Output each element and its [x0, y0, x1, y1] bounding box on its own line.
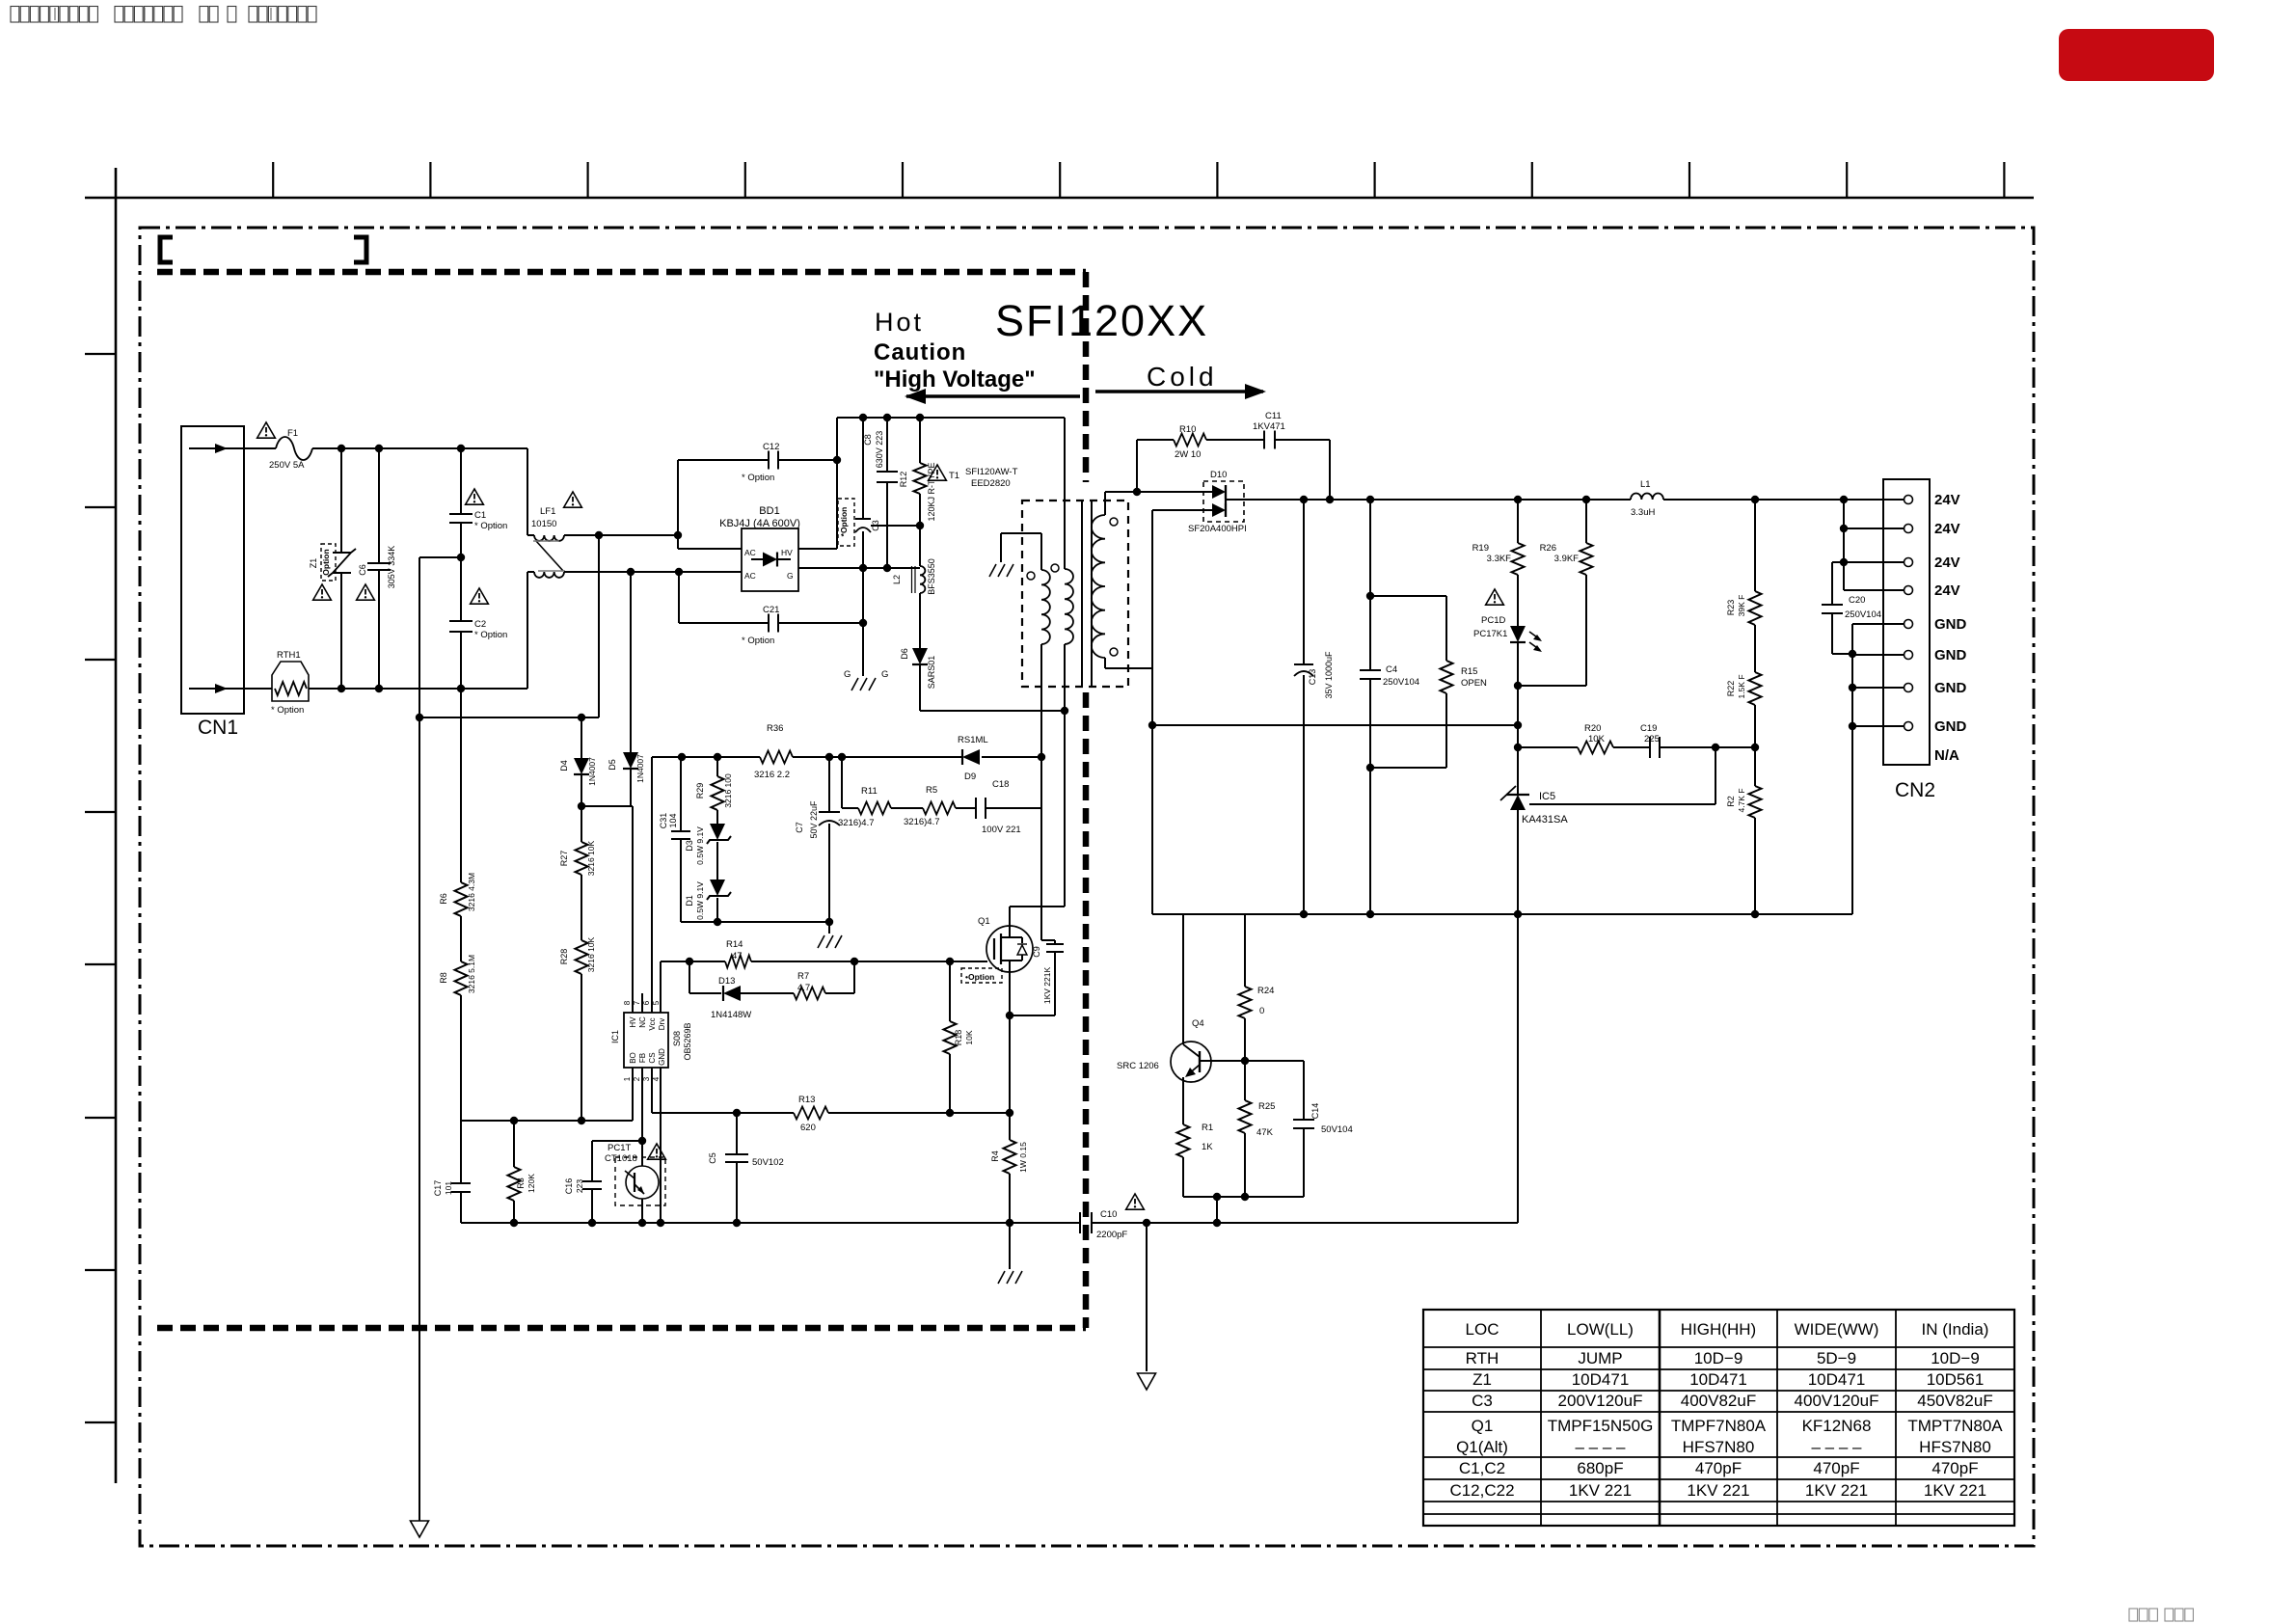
PC1T emitter — [641, 1199, 643, 1223]
resistor R19 — [1512, 543, 1525, 575]
zener D1 — [710, 880, 725, 896]
svg-text:Q1: Q1 — [978, 916, 990, 927]
wire CS row — [652, 1112, 794, 1114]
transformer T1 dashed box — [1022, 501, 1128, 687]
wire R4 down — [1009, 1174, 1011, 1223]
wire D13 branch — [689, 961, 690, 993]
inductor L2 — [920, 566, 925, 593]
svg-text:250V104: 250V104 — [1845, 609, 1881, 620]
thermistor RTH1 — [272, 662, 309, 701]
svg-text:R15: R15 — [1461, 666, 1477, 677]
wire zener bottom row — [681, 921, 829, 923]
svg-text:C21: C21 — [763, 605, 779, 615]
wire HV node — [581, 805, 633, 807]
primary ground — [989, 564, 996, 577]
wire cold gnd right — [1517, 914, 1519, 1223]
wire R22 down — [1754, 705, 1756, 747]
diode D4 — [574, 758, 589, 774]
wire Q4 emitter — [1182, 1077, 1184, 1124]
svg-text:C12: C12 — [763, 442, 779, 452]
svg-text:GND: GND — [1934, 616, 1967, 633]
svg-text:HIGH(HH): HIGH(HH) — [1681, 1320, 1756, 1339]
wire sec top — [1105, 491, 1137, 493]
svg-text:400V82uF: 400V82uF — [1681, 1392, 1756, 1410]
resistor R18 — [944, 1021, 957, 1054]
svg-text:R36: R36 — [767, 723, 783, 734]
capacitor C21 left column — [678, 572, 680, 623]
svg-text:SRC 1206: SRC 1206 — [1117, 1061, 1159, 1071]
wire gate — [854, 961, 987, 962]
warning triangle C6 — [357, 584, 375, 600]
left lenticular bracket — [160, 237, 173, 262]
line filter LF1 top entry — [527, 448, 528, 535]
svg-text:10D−9: 10D−9 — [1931, 1349, 1980, 1367]
svg-text:R19: R19 — [1472, 543, 1489, 554]
svg-text:680pF: 680pF — [1577, 1459, 1623, 1477]
capacitor C4 — [1360, 669, 1381, 671]
svg-text:120KJ R-TYPE: 120KJ R-TYPE — [927, 462, 936, 521]
svg-text:GND: GND — [1934, 680, 1967, 696]
primary polarity dot — [1027, 572, 1035, 580]
svg-text:WIDE(WW): WIDE(WW) — [1795, 1320, 1879, 1339]
ground R4 — [1009, 1223, 1011, 1269]
svg-text:HFS7N80: HFS7N80 — [1683, 1438, 1755, 1456]
svg-text:C14: C14 — [1310, 1103, 1320, 1120]
svg-text:10150: 10150 — [531, 519, 556, 529]
svg-text:BFS3550: BFS3550 — [927, 558, 936, 595]
line filter LF1 bottom entry — [527, 572, 528, 689]
svg-text:KA431SA: KA431SA — [1522, 814, 1568, 826]
svg-text:GND: GND — [1934, 647, 1967, 663]
wire Q1 drain — [1009, 907, 1011, 927]
diode D6 — [912, 648, 928, 664]
hot GND column — [862, 418, 864, 519]
GND bus — [1851, 624, 1853, 914]
resistor R2 lead — [1754, 747, 1756, 786]
capacitor C4 bottom lead — [1369, 679, 1371, 914]
hot area thick dashed border bottom — [157, 1325, 1086, 1332]
svg-text:47: 47 — [732, 951, 743, 961]
svg-text:5: 5 — [652, 1000, 661, 1005]
wire LF1 bottom output — [564, 571, 679, 573]
cold side arrow — [1095, 390, 1263, 392]
wire snubber rail — [652, 756, 760, 758]
resistor R25 — [1239, 1100, 1252, 1133]
R10 riser — [1136, 440, 1138, 492]
capacitor C1 bottom lead — [460, 523, 462, 557]
resistor R27 — [576, 842, 588, 875]
dual diode D10 box — [1203, 481, 1244, 522]
wire R26 down — [1585, 575, 1587, 686]
wire C16 down — [591, 1189, 593, 1223]
svg-text:C16: C16 — [564, 1178, 574, 1195]
svg-text:7: 7 — [633, 1000, 641, 1005]
svg-text:R23: R23 — [1726, 600, 1736, 616]
wire BD1 G output — [798, 567, 920, 569]
capacitor C7 — [819, 811, 840, 813]
svg-text:10D−9: 10D−9 — [1694, 1349, 1743, 1367]
capacitor C20 — [1822, 604, 1843, 606]
svg-text:C1: C1 — [474, 510, 486, 521]
svg-text:R4: R4 — [990, 1150, 1000, 1162]
svg-text:250V104: 250V104 — [1383, 677, 1419, 688]
wire AC line top — [312, 447, 527, 449]
hot DC bus — [837, 417, 1065, 419]
capacitor C17 — [451, 1182, 471, 1184]
svg-text:225: 225 — [1644, 734, 1660, 744]
wire BD1 AC2 — [679, 571, 742, 573]
svg-text:BO: BO — [629, 1052, 637, 1064]
wire Q4 collector — [1200, 1060, 1304, 1062]
CN2 pin feeds 24V — [1844, 528, 1904, 529]
warning triangle F1 — [257, 422, 276, 438]
svg-text:1K: 1K — [1202, 1142, 1213, 1152]
wire IC5 top — [1517, 747, 1519, 795]
svg-text:Q1: Q1 — [1472, 1417, 1494, 1435]
svg-text:R18: R18 — [954, 1030, 963, 1046]
resistor R27 lead — [581, 806, 582, 842]
feedback mid rail — [1152, 724, 1518, 726]
svg-text:– – – –: – – – – — [1812, 1438, 1863, 1456]
svg-text:Z1: Z1 — [309, 558, 318, 569]
svg-text:39K F: 39K F — [1737, 595, 1746, 617]
svg-text:3216 10K: 3216 10K — [586, 840, 596, 876]
red revision box top-right — [2059, 29, 2214, 81]
shunt reg IC5 — [1510, 795, 1526, 810]
svg-text:RS1ML: RS1ML — [958, 735, 988, 745]
wire R28 down — [581, 974, 582, 1121]
capacitor C9 — [1046, 943, 1064, 945]
resistor R15 branch bottom — [1445, 693, 1447, 768]
midpoint sense line — [419, 557, 420, 1521]
wire Vcc drop — [651, 757, 653, 993]
resistor R23 lead — [1754, 500, 1756, 591]
svg-text:TMPF7N80A: TMPF7N80A — [1671, 1417, 1767, 1435]
svg-text:104: 104 — [668, 813, 678, 827]
open arrow bottom left — [411, 1521, 429, 1537]
svg-text:R20: R20 — [1584, 723, 1601, 734]
wire R29 to D3 — [716, 810, 718, 824]
svg-text:CN1: CN1 — [198, 717, 238, 739]
svg-text:LOW(LL): LOW(LL) — [1567, 1320, 1634, 1339]
IC1 pin2 wire — [641, 1068, 643, 1141]
capacitor C8 top lead — [886, 418, 888, 472]
svg-text:T1: T1 — [949, 471, 959, 481]
R20 row — [1518, 746, 1578, 748]
svg-text:1KV471: 1KV471 — [1253, 421, 1285, 432]
capacitor C17 lead — [460, 1121, 462, 1183]
connector CN2 — [1883, 479, 1930, 765]
wire R23-R22 — [1754, 625, 1756, 672]
svg-text:C9: C9 — [1032, 946, 1041, 958]
svg-text:50V102: 50V102 — [752, 1157, 784, 1168]
svg-text:C8: C8 — [863, 434, 873, 446]
svg-text:C17: C17 — [433, 1180, 443, 1197]
fuse F1 — [276, 437, 312, 460]
capacitor C13 — [1294, 663, 1313, 665]
svg-text:450V82uF: 450V82uF — [1917, 1392, 1992, 1410]
capacitor C12 row — [678, 459, 769, 461]
svg-text:305V 334K: 305V 334K — [387, 546, 396, 589]
svg-text:630V 223: 630V 223 — [875, 431, 884, 469]
optocoupler PC1T box — [615, 1157, 665, 1205]
svg-text:BD1: BD1 — [759, 505, 779, 517]
svg-text:4: 4 — [652, 1076, 661, 1081]
svg-text:D13: D13 — [718, 976, 735, 987]
svg-text:3216 5.1M: 3216 5.1M — [467, 955, 476, 993]
wire D3 to D1 — [716, 842, 718, 880]
svg-text:Q1(Alt): Q1(Alt) — [1456, 1438, 1508, 1456]
D10 cathode join — [1225, 485, 1227, 517]
resistor R23 — [1749, 591, 1762, 625]
transistor Q4 — [1171, 1042, 1211, 1082]
capacitor C9 top lead — [1041, 939, 1055, 941]
capacitor C7 top lead — [828, 757, 830, 812]
svg-text:1KV 221: 1KV 221 — [1805, 1481, 1868, 1500]
wire LF1 top output — [564, 534, 678, 536]
resistor R26 — [1580, 543, 1593, 575]
capacitor C5 — [725, 1153, 748, 1155]
svg-text:3.9KF: 3.9KF — [1554, 554, 1580, 564]
svg-text:TMPF15N50G: TMPF15N50G — [1548, 1417, 1654, 1435]
svg-text:470pF: 470pF — [1931, 1459, 1978, 1477]
bridge BD1 diode — [751, 558, 763, 560]
svg-text:R27: R27 — [559, 851, 569, 867]
svg-text:HFS7N80: HFS7N80 — [1919, 1438, 1991, 1456]
resistor R28 — [576, 940, 588, 974]
svg-text:Q4: Q4 — [1192, 1018, 1204, 1029]
IC1 pin3 wire — [651, 1068, 653, 1113]
svg-text:SFI120AW-T: SFI120AW-T — [965, 467, 1018, 477]
transformer core — [1081, 501, 1083, 686]
svg-text:1KV 221K: 1KV 221K — [1042, 967, 1052, 1005]
svg-text:C20: C20 — [1849, 595, 1865, 606]
CN2 pin feeds GND — [1852, 623, 1904, 625]
svg-text:G: G — [881, 669, 888, 680]
resistor R4 lead — [1009, 1113, 1011, 1140]
svg-text:3.3uH: 3.3uH — [1631, 507, 1655, 518]
capacitor C13 top lead — [1303, 500, 1305, 664]
svg-text:LOC: LOC — [1466, 1320, 1499, 1339]
led PC1D — [1510, 626, 1526, 642]
svg-text:1N4007: 1N4007 — [587, 757, 597, 786]
svg-text:R25: R25 — [1258, 1101, 1275, 1112]
capacitor C31 top lead — [680, 757, 682, 831]
wire R8 down — [460, 995, 462, 1121]
svg-text:C4: C4 — [1386, 664, 1397, 675]
svg-text:35V 1000uF: 35V 1000uF — [1324, 651, 1334, 699]
svg-text:1KV 221: 1KV 221 — [1569, 1481, 1632, 1500]
capacitor C18 — [975, 798, 977, 819]
warning triangle C2 — [471, 588, 489, 604]
aux winding — [1064, 418, 1066, 569]
ic IC1 body — [624, 1013, 668, 1068]
svg-text:R26: R26 — [1540, 543, 1556, 554]
svg-text:C13: C13 — [1308, 669, 1317, 686]
svg-text:3216 2.2: 3216 2.2 — [754, 770, 790, 780]
secondary winding — [1104, 492, 1106, 515]
svg-text:L1: L1 — [1640, 479, 1651, 490]
capacitor C14 — [1293, 1119, 1314, 1121]
warning triangle T1 — [929, 465, 947, 480]
svg-text:C2: C2 — [474, 619, 486, 630]
capacitor C14 bottom lead — [1303, 1128, 1305, 1197]
capacitor C13 bottom lead — [1303, 675, 1305, 914]
svg-text:D4: D4 — [559, 760, 569, 771]
capacitor C10 — [1079, 1212, 1081, 1233]
svg-text:R2: R2 — [1726, 796, 1736, 807]
resistor R24 — [1239, 987, 1252, 1018]
svg-text:2W 10: 2W 10 — [1175, 449, 1201, 460]
svg-text:223: 223 — [575, 1179, 584, 1193]
svg-text:470pF: 470pF — [1695, 1459, 1742, 1477]
mosfet Q1 — [986, 926, 1033, 972]
line filter LF1 bottom coil — [534, 572, 564, 578]
varistor Z1 column bottom — [340, 573, 342, 689]
capacitor C16 — [582, 1180, 602, 1182]
capacitor C11 — [1263, 431, 1265, 449]
warning triangle PC1D — [1486, 589, 1504, 605]
diode D5 — [623, 752, 638, 769]
wire PC1D down — [1517, 642, 1519, 725]
svg-text:620: 620 — [800, 1123, 816, 1133]
svg-text:* Option: * Option — [474, 630, 507, 640]
resistor R15 branch top — [1370, 595, 1446, 597]
open arrow cold gnd — [1138, 1373, 1156, 1390]
inductor L1 — [1631, 493, 1663, 500]
svg-text:2200pF: 2200pF — [1096, 1230, 1127, 1240]
svg-text:4.7K F: 4.7K F — [1737, 788, 1746, 812]
bridge BD1 outline — [742, 528, 798, 591]
svg-text:RTH1: RTH1 — [277, 650, 301, 661]
wire FB branch — [592, 1140, 642, 1142]
svg-text:24V: 24V — [1934, 582, 1960, 599]
svg-text:10K: 10K — [964, 1030, 974, 1044]
PC1T collector — [641, 1141, 643, 1166]
diode D10a — [1137, 491, 1212, 493]
capacitor C3 — [855, 518, 871, 520]
svg-text:IC5: IC5 — [1539, 791, 1555, 802]
resistor R1 — [1177, 1124, 1190, 1157]
svg-text:3: 3 — [642, 1076, 651, 1081]
svg-text:100V 221: 100V 221 — [982, 825, 1021, 835]
svg-text:400V120uF: 400V120uF — [1795, 1392, 1879, 1410]
svg-text:R6: R6 — [439, 893, 448, 905]
wire D4 feed — [598, 535, 600, 717]
resistor R29 — [712, 776, 724, 810]
C3 option dashed box — [838, 499, 854, 546]
resistor R19 lead — [1517, 500, 1519, 543]
svg-text:D3: D3 — [685, 840, 694, 852]
hot area thick dashed border right lower — [1083, 692, 1090, 1328]
wire R11-R5 — [891, 807, 923, 809]
primary winding — [1040, 533, 1042, 570]
svg-text:SF20A400HPI: SF20A400HPI — [1188, 524, 1247, 534]
CN2 pin circles — [1904, 496, 1913, 504]
svg-text:RTH: RTH — [1466, 1349, 1499, 1367]
wire R19-PC1D — [1517, 575, 1519, 626]
svg-text:470pF: 470pF — [1813, 1459, 1859, 1477]
svg-text:2: 2 — [633, 1076, 641, 1081]
wire R11 riser — [841, 757, 843, 808]
wire R7 up — [825, 992, 854, 994]
svg-text:* Option: * Option — [271, 705, 304, 716]
warning triangle C1 — [466, 489, 484, 504]
warning triangle Z1 — [313, 584, 332, 600]
capacitor C2 top lead — [460, 557, 462, 621]
wire C12 left column — [677, 460, 679, 549]
connector CN1 — [181, 426, 244, 714]
svg-text:C18: C18 — [992, 779, 1009, 790]
svg-text:SFI120XX: SFI120XX — [995, 296, 1208, 345]
svg-text:C10: C10 — [1100, 1209, 1117, 1220]
wire clamp column — [1040, 757, 1042, 940]
resistor R29 top lead — [716, 757, 718, 776]
svg-text:6: 6 — [642, 1000, 651, 1005]
svg-text:R12: R12 — [899, 472, 908, 488]
wire C18 right — [986, 807, 1041, 809]
resistor R22 — [1749, 672, 1762, 705]
svg-text:24V: 24V — [1934, 555, 1960, 571]
wire R6-R8 — [460, 916, 462, 961]
svg-text:* Option: * Option — [742, 636, 774, 646]
hot ground rail — [461, 1222, 1080, 1224]
svg-text:8: 8 — [623, 1000, 632, 1005]
diode D9 RS1ML — [962, 749, 980, 765]
resistor R3 lead — [513, 1121, 515, 1167]
svg-text:EED2820: EED2820 — [971, 478, 1011, 489]
svg-text:F1: F1 — [287, 428, 298, 439]
svg-text:CN2: CN2 — [1895, 779, 1935, 801]
wire HV column — [836, 418, 838, 549]
Q1 option dashed box — [961, 968, 1002, 983]
svg-text:SARS01: SARS01 — [927, 656, 936, 690]
wire Q1 source — [1009, 971, 1011, 1113]
resistor R8 — [455, 961, 468, 995]
svg-text:0: 0 — [1259, 1006, 1264, 1016]
resistor R12 top lead — [919, 418, 921, 463]
svg-text:R22: R22 — [1726, 681, 1736, 697]
optocoupler PC1T — [626, 1166, 659, 1199]
R10 row — [1137, 439, 1174, 441]
diode D13 — [723, 986, 741, 1001]
wire R18 down — [949, 1054, 951, 1113]
diode D4 lead — [581, 717, 582, 758]
svg-text:3.3KF: 3.3KF — [1487, 554, 1512, 564]
svg-text:0.5W 9.1V: 0.5W 9.1V — [695, 881, 705, 920]
svg-text:3216)4.7: 3216)4.7 — [838, 818, 875, 828]
svg-text:OPEN: OPEN — [1461, 678, 1487, 689]
svg-text:CS: CS — [648, 1052, 657, 1063]
svg-text:PC1D: PC1D — [1481, 615, 1505, 626]
capacitor C5 lead — [736, 1113, 738, 1154]
wire C17 down — [460, 1192, 462, 1223]
IC1 pin4 wire — [660, 1068, 662, 1223]
resistor R12 — [914, 463, 927, 494]
resistor R20 — [1578, 742, 1613, 754]
svg-text:D6: D6 — [900, 648, 909, 660]
dash-dot sheet border — [140, 228, 2034, 1546]
primary winding bottom lead — [1040, 644, 1042, 757]
resistor R5 — [923, 802, 956, 815]
capacitor C20 top lead — [1832, 561, 1844, 563]
capacitor C2 bottom lead — [460, 632, 462, 689]
node C1-C2 midpoint — [457, 554, 465, 561]
svg-text:TMPT7N80A: TMPT7N80A — [1907, 1417, 2003, 1435]
svg-text:R10: R10 — [1179, 424, 1196, 435]
resistor R6 lead — [460, 689, 462, 882]
option table grid — [1423, 1310, 2014, 1526]
